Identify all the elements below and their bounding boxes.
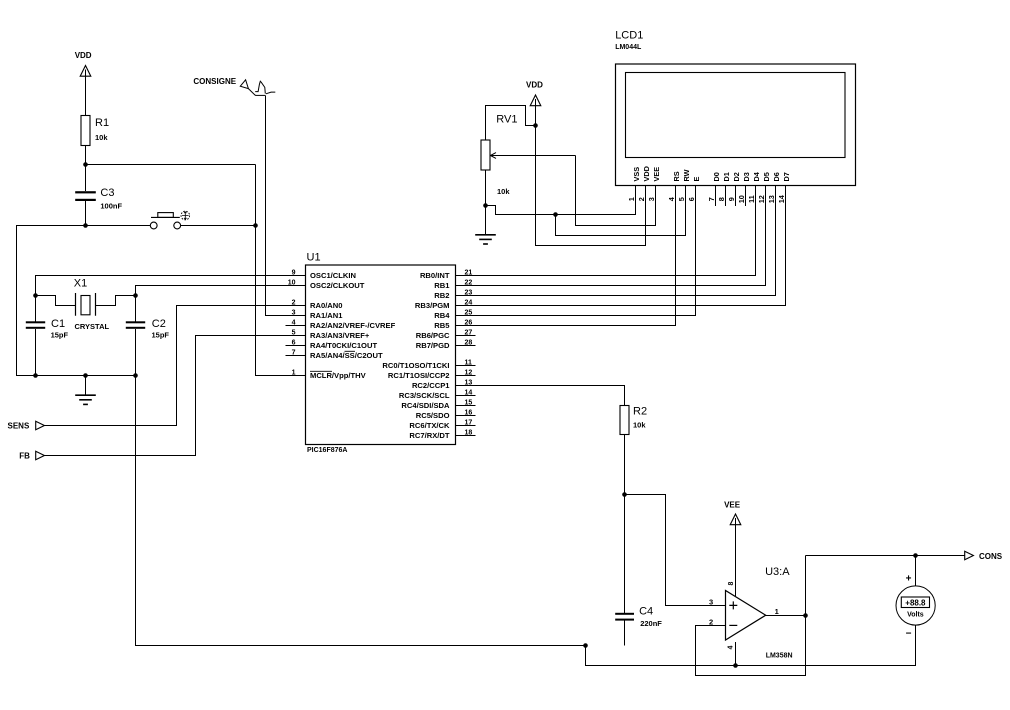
crystal X1 body [81,296,90,315]
svg-text:1: 1 [627,197,636,201]
svg-text:10k: 10k [633,421,646,430]
LCD1 D0 stub wire [715,186,717,207]
capacitor C4 plates [615,613,634,615]
LCD1 pin 7 D0 (rotated number + name) [707,172,721,201]
wire RB0 (pin 21) to LCD D4 [456,186,756,276]
U1 pin 12 RC1/T1OSI/CCP2 (number + name) [388,369,476,380]
svg-text:13: 13 [767,195,776,203]
svg-text:D3: D3 [742,172,751,181]
svg-text:PIC16F876A: PIC16F876A [307,447,347,454]
wire RB2 (pin 23) to LCD D6 [456,186,776,296]
svg-text:1: 1 [775,607,779,616]
LCD1 display outer box [616,64,856,186]
svg-text:VSS: VSS [632,167,641,182]
wire RV1 top terminal to VDD [486,106,536,141]
svg-text:27: 27 [465,329,473,336]
power flag VDD (contrast) [526,81,543,106]
power flag VEE (op-amp) [724,501,741,525]
svg-text:10: 10 [288,279,296,286]
wire button right contact to MCLR column [181,225,255,227]
svg-text:100nF: 100nF [100,202,122,211]
junction dot crystal right node [133,293,138,298]
svg-text:OSC1/CLKIN: OSC1/CLKIN [310,271,356,280]
U1 pin 24 RB3/PGM (number + name) [415,299,473,310]
svg-text:D2: D2 [732,172,741,181]
junction dot op-amp output [803,613,808,618]
svg-text:17: 17 [465,419,473,426]
wire RB3 (pin 24) to LCD D7 [456,186,786,306]
RV1 wiper arrow [492,155,576,157]
junction dot C1 bottom [33,373,38,378]
svg-text:RV1: RV1 [496,114,517,126]
svg-text:1: 1 [292,369,296,376]
junction dot VDD/RV1 top [533,123,538,128]
LCD1 pin 6 E (rotated number + name) [687,177,701,202]
svg-text:+88.8: +88.8 [905,599,926,608]
wire C2 bottom to rail [135,329,137,376]
capacitor C1 plates [26,321,45,323]
wire VDD column to LCD VDD (pin 2) [536,126,646,246]
svg-text:18: 18 [465,429,473,436]
wire branch to LCD RW (pin 5) [556,186,686,236]
op-amp - input marker [729,624,737,626]
junction dot R1/C3/MCLR-net [83,162,88,167]
wire junction to op-amp + input (pin 3) [625,495,726,606]
LCD1 pin 12 D5 (rotated number + name) [757,172,771,203]
svg-text:7: 7 [707,197,716,201]
svg-text:8: 8 [728,582,735,586]
LCD1 pin 14 D7 (rotated number + name) [777,172,791,203]
junction dot voltmeter top branch [913,553,918,558]
svg-text:RW: RW [682,169,691,181]
svg-text:12: 12 [465,369,473,376]
junction dot VSS/RW branch [553,212,558,217]
svg-text:U1: U1 [307,252,321,264]
svg-text:RB0/INT: RB0/INT [420,271,450,280]
LCD1 pin 1 VSS (rotated number + name) [627,167,641,201]
svg-text:RC2/CCP1: RC2/CCP1 [412,381,450,390]
svg-text:5: 5 [292,329,296,336]
svg-text:7: 7 [292,349,296,356]
svg-text:D4: D4 [752,171,761,181]
wire oscillator ground rail [17,375,136,377]
wire RV1 bottom to junction [485,170,487,206]
resistor R1 body [81,116,90,146]
svg-text:OSC2/CLKOUT: OSC2/CLKOUT [310,281,365,290]
wire RB4 (pin 25) to LCD E [456,186,696,316]
svg-text:RB3/PGM: RB3/PGM [415,301,450,310]
wire C3 top [85,165,87,192]
wire C2 top [135,296,137,322]
junction dot op-amp pin 4 on rail [733,663,738,668]
svg-text:RA2/AN2/VREF-/CVREF: RA2/AN2/VREF-/CVREF [310,321,396,330]
U1 pin 1 MCLR/Vpp/THV (number + name) [292,369,367,380]
capacitor C3 plates [75,191,96,193]
push button actuator bar [151,216,180,218]
wire MCLR column vertical (to pin 1 MCLR) [256,165,306,376]
LCD1 pin 8 D1 (rotated number + name) [717,172,731,201]
push button right contact [174,222,181,229]
svg-text:RB6/PGC: RB6/PGC [416,331,450,340]
svg-text:8: 8 [717,197,726,201]
U1 pin 22 RB1 (number + name) [434,279,472,290]
U1 pin 2 RA0/AN0 (number + name) [292,299,343,310]
wire C4 bottom to analog ground rail [624,621,626,646]
push button left contact [150,222,157,229]
wire R1 bottom to junction [85,146,87,165]
svg-text:C4: C4 [639,606,653,618]
U1 pin 16 RC5/SDO (number + name) [416,409,476,420]
svg-text:R1: R1 [95,117,109,129]
svg-text:D7: D7 [782,172,791,181]
wire C3 bottom to ground row [85,201,87,226]
resistor R2 body [620,406,629,435]
wire junction down to C4 top [624,495,626,613]
input terminal SENS [36,421,45,429]
U1 pin 11 RC0/T1OSO/T1CKI (number + name) [382,359,475,370]
wire RB5 (pin 26) to LCD RS [456,186,676,326]
svg-text:RA0/AN0: RA0/AN0 [310,301,343,310]
U1 pin 13 RC2/CCP1 (number + name) [412,379,472,390]
wire op-amp pin 2 feedback [696,616,806,676]
junction dot button/MCLR column [253,223,258,228]
svg-text:VEE: VEE [652,167,661,182]
svg-text:LM358N: LM358N [766,653,793,660]
capacitor C2 plates [126,321,145,323]
svg-text:4: 4 [292,319,296,326]
wire op-amp output (pin 1) [766,615,806,617]
svg-text:C1: C1 [51,318,65,330]
svg-text:2: 2 [292,299,296,306]
svg-text:3: 3 [709,598,713,607]
svg-text:2: 2 [637,197,646,201]
svg-text:RC5/SDO: RC5/SDO [416,411,450,420]
microcontroller U1 box [306,265,456,445]
wire VDD flag to R1 top [85,76,87,115]
junction dot R2/C4/op-amp input [622,492,627,497]
op-amp U3:A triangle [726,591,766,641]
svg-text:U3:A: U3:A [765,566,790,578]
svg-text:C2: C2 [152,318,166,330]
U1 pin 26 RB5 (number + name) [434,319,472,330]
svg-text:10k: 10k [95,133,108,142]
junction dot analog rail branch [583,643,588,648]
svg-text:VEE: VEE [724,501,741,510]
U1 pin 10 OSC2/CLKOUT (number + name) [288,279,365,290]
svg-text:D5: D5 [762,172,771,181]
wire crystal left node to X1 left electrode [36,296,76,306]
svg-text:CRYSTAL: CRYSTAL [75,322,110,331]
wire FB to RA3 (pin 5) [45,336,306,456]
U1 pin 23 RB2 (number + name) [434,289,472,300]
voltmeter display window [901,597,929,608]
svg-text:4: 4 [728,646,735,650]
svg-text:15: 15 [465,399,473,406]
junction dot ground stem [83,373,88,378]
U1 pin 3 RA1/AN1 (number + name) [292,309,344,320]
wire RV1 wiper to LCD VEE (pin 3) [576,156,656,226]
LCD1 pin 5 RW (rotated number + name) [677,169,691,201]
svg-text:CONSIGNE: CONSIGNE [193,77,236,86]
LCD1 pin 4 RS (rotated number + name) [667,171,681,201]
U1 pin 21 RB0/INT (number + name) [420,269,472,280]
junction dot C2 bottom / long rail [133,373,138,378]
push button interactive marker (circled arrows) [181,211,190,220]
wire RB1 (pin 22) to LCD D5 [456,186,766,286]
power flag VDD (reset pull-up) [75,51,92,76]
wire X1 right electrode to crystal right node [96,296,136,306]
wire VEE flag to op-amp pin 8 [735,525,737,596]
svg-text:10: 10 [737,195,746,203]
op-amp + input marker [729,601,737,609]
U1 pin 7 RA5/AN4/SS/C2OUT (number + name) [286,349,383,360]
LCD1 pin 13 D6 (rotated number + name) [767,172,781,203]
U1 pin 25 RB4 (number + name) [434,309,472,320]
svg-text:16: 16 [465,409,473,416]
wire CONS rail to voltmeter + [915,556,917,587]
wire CONSIGNE to RA1 (pin 3) [266,95,306,315]
svg-text:RC7/RX/DT: RC7/RX/DT [409,431,449,440]
svg-text:6: 6 [687,197,696,201]
LCD1 pin 2 VDD (rotated number + name) [637,166,651,201]
U1 pin 18 RC7/RX/DT (number + name) [409,429,475,440]
wire SENS to RA0 (pin 2) [45,306,306,426]
U1 pin 6 RA4/T0CKI/C1OUT (number + name) [286,339,378,350]
LCD1 pin 9 D2 (rotated number + name) [727,172,741,201]
voltmeter body (circle) [896,586,935,625]
svg-text:9: 9 [292,269,296,276]
svg-text:28: 28 [465,339,473,346]
U1 pin 14 RC3/SCK/SCL (number + name) [399,389,476,400]
wire op-amp pin 4 to supply rail [735,642,737,666]
svg-text:RB1: RB1 [434,281,450,290]
wire junction to MCLR column (horizontal) [86,164,256,166]
wire CONS rail [806,555,965,557]
svg-text:15pF: 15pF [152,331,170,340]
wire ground row left + down left edge to bottom rail [17,226,151,376]
junction dot crystal left node [33,293,38,298]
wire C1 bottom to rail [35,329,37,376]
svg-text:+: + [906,574,912,585]
potentiometer RV1 body [481,140,490,170]
input terminal CONSIGNE (rotated flag) [240,80,275,96]
wire R2 bottom to junction [624,435,626,495]
LCD1 pin 10 D3 (rotated number + name) [737,172,751,203]
wire VDD flag down to junction [535,106,537,126]
wire C1 top [35,296,37,322]
svg-text:RB5: RB5 [434,321,450,330]
svg-text:6: 6 [292,339,296,346]
svg-text:10k: 10k [497,187,510,196]
svg-text:RC3/SCK/SCL: RC3/SCK/SCL [399,391,450,400]
U1 pin 27 RB6/PGC (number + name) [416,329,476,340]
wire OSC1 (pin 9) to crystal left node [36,276,306,296]
LCD1 D2 stub wire [735,186,737,207]
U1 pin 9 OSC1/CLKIN (number + name) [292,269,356,280]
svg-text:RC0/T1OSO/T1CKI: RC0/T1OSO/T1CKI [382,361,449,370]
LCD1 D1 stub wire [725,186,727,207]
svg-text:VDD: VDD [642,166,651,181]
svg-text:RA1/AN1: RA1/AN1 [310,311,343,320]
svg-text:CONS: CONS [979,552,1003,561]
svg-text:5: 5 [677,197,686,201]
svg-text:MCLR/Vpp/THV: MCLR/Vpp/THV [310,371,367,380]
U1 pin 28 RB7/PGD (number + name) [416,339,476,350]
svg-text:SENS: SENS [8,422,30,431]
input terminal FB [36,451,45,459]
svg-text:D1: D1 [722,172,731,181]
svg-text:RC1/T1OSI/CCP2: RC1/T1OSI/CCP2 [388,371,450,380]
svg-text:LCD1: LCD1 [615,30,643,42]
svg-text:3: 3 [292,309,296,316]
svg-text:LM044L: LM044L [615,44,642,51]
svg-text:E: E [692,177,701,182]
svg-text:RB4: RB4 [434,311,450,320]
svg-text:9: 9 [727,197,736,201]
svg-text:3: 3 [647,197,656,201]
wire rail jog down to op-amp supply rail [586,625,916,666]
wire output up to CONS rail [805,556,807,616]
svg-text:11: 11 [747,195,756,203]
U1 pin 5 RA3/AN3/VREF+ (number + name) [292,329,370,340]
svg-text:RA4/T0CKI/C1OUT: RA4/T0CKI/C1OUT [310,341,377,350]
LCD1 D3 stub wire [745,186,747,207]
svg-text:RB2: RB2 [434,291,449,300]
svg-text:X1: X1 [74,278,87,290]
svg-text:C3: C3 [100,187,114,199]
wire long left rail to bottom (C2 node to analog ground rail) [136,376,586,646]
svg-text:RC4/SDI/SDA: RC4/SDI/SDA [401,401,450,410]
U1 pin 15 RC4/SDI/SDA (number + name) [401,399,475,410]
svg-text:RA3/AN3/VREF+: RA3/AN3/VREF+ [310,331,370,340]
svg-text:220nF: 220nF [640,619,662,628]
svg-text:RB7/PGD: RB7/PGD [416,341,450,350]
svg-text:VDD: VDD [526,81,543,90]
svg-text:Volts: Volts [907,612,924,619]
wire OSC2 (pin 10) to crystal right node [136,286,306,296]
ground symbol (oscillator) [85,376,87,396]
ground symbol (RV1) [485,206,487,235]
svg-text:D0: D0 [712,172,721,181]
svg-text:14: 14 [465,389,473,396]
wire RC2/CCP1 (pin 13) to R2 top [456,386,625,406]
svg-text:−: − [906,629,912,640]
svg-text:R2: R2 [633,406,647,418]
U1 pin 4 RA2/AN2/VREF-/CVREF (number + name) [286,319,396,330]
svg-text:RS: RS [672,171,681,181]
svg-text:15pF: 15pF [51,331,69,340]
output terminal CONS [965,551,974,559]
junction dot RV1 bottom [483,203,488,208]
LCD1 screen area [626,73,846,158]
LCD1 pin 3 VEE (rotated number + name) [647,167,661,201]
svg-text:D6: D6 [772,172,781,181]
svg-text:FB: FB [19,452,30,461]
svg-text:RC6/TX/CK: RC6/TX/CK [409,421,450,430]
svg-text:14: 14 [777,194,786,203]
junction dot C3 bottom / button row [83,223,88,228]
svg-text:12: 12 [757,195,766,203]
svg-text:VDD: VDD [75,51,92,60]
LCD1 pin 11 D4 (rotated number + name) [747,171,761,203]
U1 pin 17 RC6/TX/CK (number + name) [409,419,475,430]
svg-text:RA5/AN4/SS/C2OUT: RA5/AN4/SS/C2OUT [310,351,383,360]
wire RV1 bottom to LCD VSS (pin 1) [486,186,636,215]
svg-text:11: 11 [465,359,473,366]
